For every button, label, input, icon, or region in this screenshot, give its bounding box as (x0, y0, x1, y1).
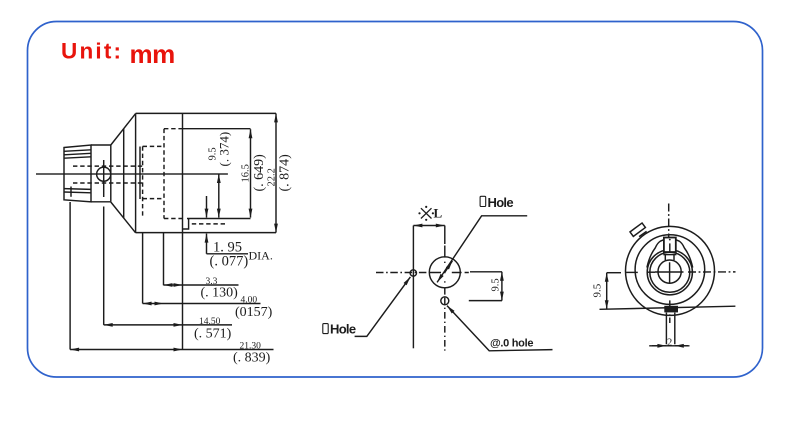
main body (136, 113, 276, 232)
extension line body front (142, 233, 144, 304)
centerline tick left clamp (647, 271, 655, 273)
vertical centerline (444, 246, 446, 351)
dimension 16.5 vertical (250, 129, 252, 217)
dim 1.95 lower arrow (206, 234, 208, 254)
key slot centerline dash (669, 243, 671, 252)
leader side hole (355, 277, 411, 337)
svg-text:9.5: 9.5 (491, 278, 502, 291)
label side hole (323, 324, 328, 334)
mounting ring circle (635, 235, 705, 305)
svg-text:Unit:: Unit: (61, 39, 123, 64)
9.5 extension top (470, 271, 502, 273)
shaft cross vertical (669, 262, 671, 284)
vertical centerline top (668, 204, 670, 238)
svg-text:@.0 hole: @.0 hole (490, 337, 533, 349)
dimension L (413, 225, 444, 227)
svg-text:(. 874): (. 874) (278, 154, 293, 192)
shaft cross horizontal (655, 271, 684, 273)
svg-text:L: L (434, 206, 443, 221)
rear step notch (183, 219, 189, 230)
9.5 extension bottom (469, 300, 502, 302)
svg-text:DIA.: DIA. (249, 249, 273, 263)
key slot rect (664, 238, 676, 253)
svg-text:16.5: 16.5 (241, 164, 252, 182)
svg-text:(. 130): (. 130) (201, 286, 239, 301)
key slot base lines (663, 251, 676, 253)
bushing (91, 145, 111, 202)
dimension 3.3 (164, 284, 183, 286)
set screw circle (97, 167, 111, 181)
reference mark L (418, 206, 434, 221)
terminal block bottom (664, 306, 678, 313)
long base line (600, 306, 736, 309)
dimension 22.2 vertical (body rear edge) (275, 113, 277, 232)
bottom tab right (674, 313, 676, 345)
bottom hole circle (441, 297, 449, 305)
dimension 4.00 (143, 303, 164, 305)
slot left edge (412, 226, 414, 349)
svg-text:(. 571): (. 571) (194, 327, 232, 342)
clamp ring outer (647, 250, 692, 295)
dimension 14.50 (104, 324, 183, 326)
knob outline (64, 145, 91, 202)
extension line rear (182, 233, 184, 350)
svg-text:(. 649): (. 649) (252, 154, 267, 192)
dimension 9.5 middle (501, 272, 503, 301)
extension line mid (163, 233, 165, 286)
svg-text:mm: mm (130, 39, 175, 69)
terminal lug neck (639, 231, 647, 236)
outer body circle (626, 226, 715, 315)
body front inner edge (139, 147, 141, 200)
dimension 9.5 right view (606, 273, 608, 310)
knob knurl lines (64, 150, 91, 152)
svg-text:(. 077): (. 077) (210, 254, 249, 270)
svg-text:(. 839): (. 839) (233, 351, 271, 366)
svg-text:9.5: 9.5 (592, 283, 604, 297)
dimension 2 (649, 345, 689, 347)
terminal lug top-left (630, 223, 645, 236)
horizontal centerline (376, 272, 428, 274)
set screw axis (103, 160, 105, 197)
svg-text:2: 2 (667, 338, 672, 349)
dim 1.95 leader underline (207, 253, 249, 255)
knob tick mark (70, 187, 72, 197)
main hole circle (429, 257, 460, 288)
extension line from bushing screw axis (103, 207, 105, 325)
svg-text:Hole: Hole (488, 195, 514, 210)
blue rounded frame (28, 22, 763, 378)
body internal edge (182, 113, 184, 232)
svg-text:(. 374): (. 374) (217, 132, 232, 167)
svg-text:22.2: 22.2 (267, 168, 278, 186)
tab centerline (669, 300, 671, 323)
keyway stubs (664, 255, 666, 260)
dimension 21.30 (70, 349, 182, 351)
diameter arrow up-right (445, 261, 453, 272)
leader top hole (437, 216, 527, 283)
bottom tab left (665, 313, 667, 345)
shaft circle (658, 260, 681, 283)
svg-text:(0157): (0157) (235, 305, 273, 320)
small hidden box (143, 146, 164, 217)
clamp ring inner (650, 252, 690, 292)
clamp spring ear right (676, 240, 693, 268)
extension line from knob (69, 202, 71, 350)
hidden bore lines (73, 166, 143, 183)
centerline of shaft (36, 173, 228, 175)
svg-text:Hole: Hole (330, 322, 356, 337)
centerline tick left outer (626, 271, 638, 273)
9.5 extension top right view (607, 272, 621, 274)
side hole circle (410, 270, 416, 276)
hidden shaft line 1.95 dia (192, 223, 227, 225)
svg-text:14.50: 14.50 (199, 317, 221, 327)
clamp spring ear left (647, 240, 664, 268)
dimension 9.5 vertical (218, 174, 220, 218)
dim 1.95 upper arrow (206, 196, 208, 218)
slot right edge (444, 226, 446, 245)
leader bottom hole (447, 306, 553, 351)
label top hole (480, 196, 486, 206)
taper cone (111, 114, 136, 145)
large hidden box (164, 129, 183, 219)
key slot centerline dot (669, 239, 671, 241)
centerline right dashdot (688, 271, 736, 273)
svg-text:4.00: 4.00 (241, 296, 258, 306)
